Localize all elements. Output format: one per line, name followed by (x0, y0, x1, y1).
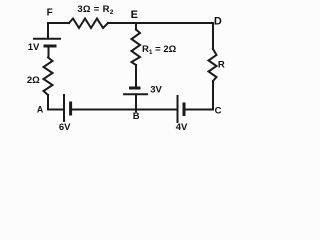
svg-text:D: D (214, 15, 222, 27)
resistor R zigzag (right) (209, 49, 217, 81)
svg-text:R1 = 2Ω: R1 = 2Ω (142, 44, 177, 56)
svg-text:3V: 3V (150, 85, 162, 96)
wire 2ohm to A (48, 95, 63, 110)
label 3V (150, 85, 162, 96)
node E label (131, 9, 138, 21)
svg-text:4V: 4V (176, 122, 188, 133)
svg-text:E: E (131, 9, 138, 21)
wire R up to D (212, 23, 214, 49)
node F label (47, 8, 53, 19)
wire 3V to B (135, 94, 137, 111)
label R1 = 2 ohm (142, 44, 177, 56)
resistor R2 (3 ohm) zigzag (69, 19, 108, 29)
svg-text:2Ω: 2Ω (27, 75, 40, 86)
label 1V (28, 42, 40, 53)
wire F down to 1V battery (47, 23, 49, 38)
node B label (133, 111, 140, 122)
wire R1 to 3V battery (135, 65, 137, 88)
battery 3V long plate (124, 93, 147, 95)
battery 4V long plate (177, 96, 179, 122)
label 4V (176, 122, 188, 133)
label 3 ohm = R2 (77, 4, 113, 16)
node C label (215, 106, 222, 117)
svg-text:B: B (133, 111, 140, 122)
svg-text:R: R (218, 60, 225, 71)
battery 6V long plate (63, 95, 65, 121)
svg-text:A: A (37, 104, 44, 114)
wire E down to R1 (135, 23, 137, 30)
svg-text:F: F (47, 8, 53, 19)
wire F to R2 (48, 22, 69, 24)
battery 1V short plate (45, 45, 55, 48)
wire 6V to 4V along bottom (node B) (71, 109, 177, 111)
wire C up to R (212, 81, 214, 110)
svg-text:C: C (215, 106, 222, 117)
label 2 ohm (27, 75, 40, 86)
node D label (214, 15, 222, 27)
node A label (37, 104, 44, 114)
wire 1V to 2ohm resistor (48, 46, 50, 58)
resistor 2 ohm zigzag (left) (44, 58, 53, 96)
label 6V (59, 122, 71, 133)
battery 1V long plate (34, 38, 60, 40)
svg-text:1V: 1V (28, 42, 40, 53)
battery 4V short plate (183, 104, 186, 115)
battery 3V short plate (131, 87, 140, 90)
label R (right resistor) (218, 60, 225, 71)
svg-text:6V: 6V (59, 122, 71, 133)
svg-text:3Ω = R2: 3Ω = R2 (77, 4, 113, 16)
resistor R1 zigzag (middle) (132, 30, 141, 66)
wire R2 to D via E (108, 22, 213, 24)
wire 4V to C (184, 109, 213, 111)
battery 6V short plate (69, 103, 72, 114)
